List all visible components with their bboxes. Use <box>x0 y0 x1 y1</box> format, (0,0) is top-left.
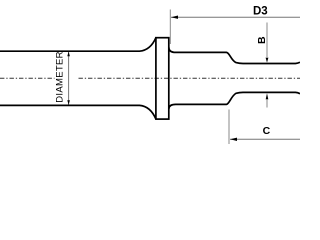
C arrow <box>230 138 237 141</box>
B arrow down <box>266 58 269 63</box>
D3 arrow <box>171 16 178 19</box>
wire shaft bottom profile <box>0 105 156 119</box>
svg-text:D3: D3 <box>253 6 268 18</box>
wire neck bottom profile <box>169 92 300 109</box>
wire neck top profile <box>169 47 300 63</box>
svg-text:DIAMETER: DIAMETER <box>55 51 66 103</box>
diameter dim arrow shaft <box>68 52 70 105</box>
svg-text:C: C <box>263 125 271 137</box>
flange <box>156 38 169 119</box>
D3 dimension line <box>171 16 300 18</box>
D3 extension line <box>169 10 171 45</box>
C extension line <box>228 110 230 145</box>
B lower leader line <box>266 99 268 108</box>
B lower arrow up <box>266 93 269 99</box>
diameter arrow down <box>67 100 70 105</box>
wire shaft top profile <box>0 38 156 52</box>
C dimension line <box>230 138 300 140</box>
B leader line <box>266 23 268 58</box>
svg-text:B: B <box>256 36 268 44</box>
diameter arrow up <box>67 52 70 57</box>
centerline right segment <box>79 77 301 79</box>
centerline left segment <box>0 77 55 79</box>
